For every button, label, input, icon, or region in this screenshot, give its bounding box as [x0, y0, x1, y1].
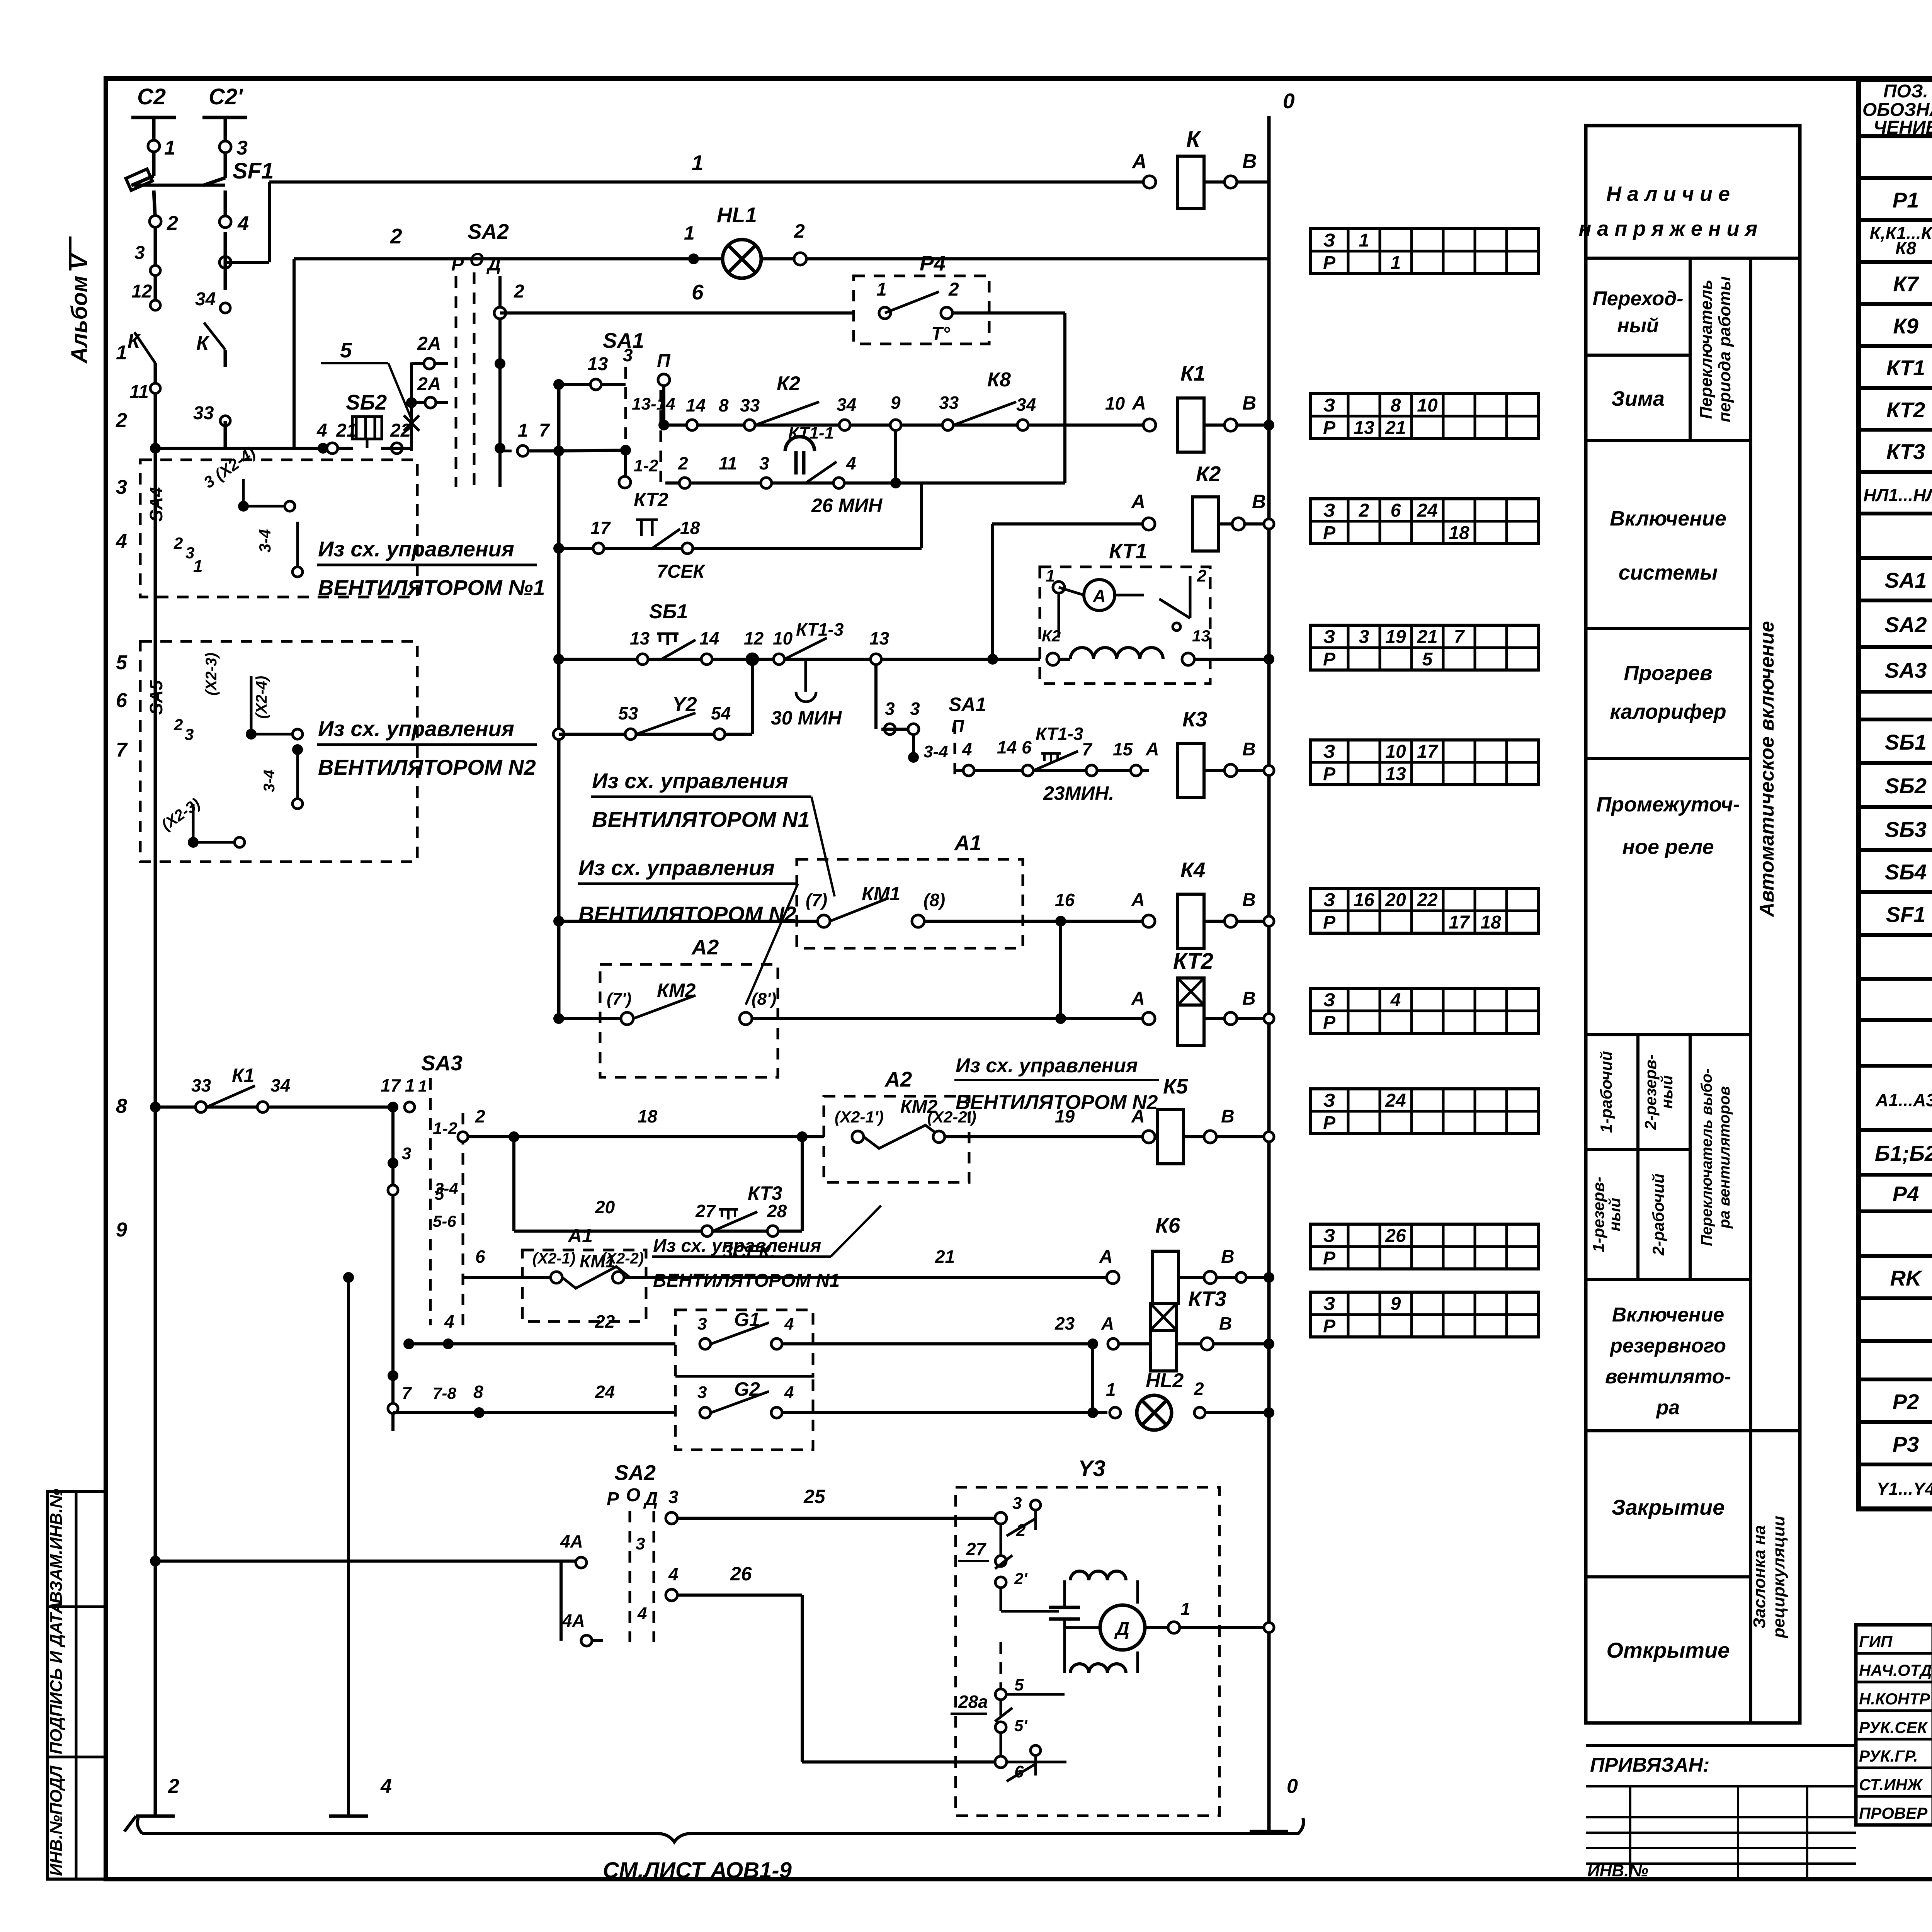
marker 3 3-4: [388, 1158, 398, 1168]
svg-text:30 МИН: 30 МИН: [771, 707, 842, 729]
svg-text:17: 17: [590, 518, 611, 538]
svg-text:КТ1: КТ1: [1109, 539, 1147, 563]
connection mini-table: [1310, 988, 1538, 1033]
svg-text:Р: Р: [1323, 418, 1336, 438]
svg-text:периода работы: периода работы: [1715, 276, 1734, 422]
svg-text:С2: С2: [137, 84, 166, 109]
svg-text:Б1;Б2: Б1;Б2: [1875, 1141, 1932, 1165]
svg-text:К: К: [128, 330, 141, 352]
svg-text:В: В: [1242, 392, 1256, 414]
svg-text:Т°: Т°: [931, 324, 950, 344]
svg-text:18: 18: [1449, 523, 1469, 543]
svg-text:13: 13: [1385, 764, 1406, 784]
KT3 contact row: [512, 1137, 515, 1231]
svg-text:Из сх. управления: Из сх. управления: [578, 855, 775, 880]
svg-text:33: 33: [939, 393, 959, 413]
svg-text:3: 3: [116, 476, 127, 498]
svg-text:10: 10: [1385, 742, 1406, 762]
svg-text:4А: 4А: [560, 1531, 583, 1551]
KT2 contact row: [553, 543, 564, 554]
lamp HL1: [723, 240, 761, 278]
svg-text:33: 33: [191, 1075, 211, 1095]
left stamp column: [48, 1492, 106, 1879]
svg-text:КТ2: КТ2: [634, 489, 668, 510]
svg-text:3: 3: [402, 1144, 411, 1163]
svg-text:4: 4: [784, 1383, 794, 1402]
svg-text:З: З: [1323, 1226, 1335, 1246]
svg-text:Р4: Р4: [1893, 1182, 1919, 1206]
left bus: [154, 227, 157, 309]
svg-text:10: 10: [1417, 395, 1438, 416]
sensor P4 box: [854, 276, 989, 344]
svg-text:8: 8: [473, 1382, 483, 1402]
svg-text:2: 2: [948, 279, 959, 300]
svg-text:7-8: 7-8: [433, 1384, 456, 1402]
svg-text:17: 17: [381, 1075, 401, 1095]
svg-text:4: 4: [668, 1564, 679, 1584]
svg-text:4: 4: [1390, 990, 1401, 1010]
svg-text:1: 1: [684, 222, 695, 244]
svg-text:5': 5': [1014, 1716, 1028, 1735]
svg-text:13-14: 13-14: [632, 395, 675, 413]
svg-text:0: 0: [1287, 1775, 1298, 1798]
svg-text:23МИН.: 23МИН.: [1043, 782, 1114, 804]
svg-text:(7'): (7'): [607, 990, 631, 1009]
row E wire: [155, 447, 353, 450]
signature table: [1856, 1625, 1932, 1825]
A1 box KM1 bottom: [522, 1250, 646, 1321]
svg-text:4: 4: [637, 1604, 647, 1623]
contact K1 row8: [150, 1102, 161, 1112]
svg-text:6: 6: [116, 689, 128, 712]
svg-text:Н.КОНТР: Н.КОНТР: [1859, 1690, 1930, 1708]
svg-text:З: З: [1323, 742, 1335, 762]
K2 relay coil row: [992, 522, 1149, 526]
svg-text:А: А: [1131, 491, 1145, 512]
svg-text:3: 3: [623, 345, 633, 365]
svg-text:34: 34: [1016, 395, 1036, 415]
Y3 capacitor: [1049, 1606, 1080, 1609]
svg-text:К6: К6: [1155, 1213, 1180, 1237]
svg-text:(8): (8): [923, 890, 945, 910]
svg-text:ВЕНТИЛЯТОРОМ N1: ВЕНТИЛЯТОРОМ N1: [592, 807, 810, 832]
svg-text:7: 7: [1082, 739, 1093, 759]
svg-text:КТ1-3: КТ1-3: [1036, 724, 1083, 744]
A2 box KM2: [600, 964, 778, 1077]
svg-text:(Х2-4): (Х2-4): [253, 676, 270, 719]
svg-text:HL1: HL1: [717, 203, 757, 227]
Y3 contact 3: [995, 1512, 1007, 1524]
svg-text:2: 2: [1359, 500, 1369, 521]
connection mini-table: [1310, 1089, 1538, 1134]
svg-text:5-6: 5-6: [433, 1212, 456, 1230]
svg-text:SF1: SF1: [233, 158, 274, 184]
svg-text:КТ2: КТ2: [1886, 398, 1925, 422]
contact K2: [755, 402, 819, 425]
connection mini-table: [1310, 499, 1538, 544]
svg-text:22: 22: [1417, 890, 1438, 910]
svg-text:23: 23: [1054, 1313, 1075, 1333]
svg-text:(8'): (8'): [752, 990, 776, 1009]
connection mini-table: [1310, 888, 1538, 933]
svg-text:21: 21: [1385, 418, 1406, 438]
svg-text:Открытие: Открытие: [1607, 1638, 1730, 1662]
svg-text:28а: 28а: [958, 1692, 988, 1712]
wire 26: [666, 1589, 677, 1601]
KT2 coil row: [559, 1017, 621, 1020]
svg-text:24: 24: [1385, 1090, 1406, 1111]
svg-text:3: 3: [1012, 1494, 1022, 1513]
svg-text:ВЕНТИЛЯТОРОМ N2: ВЕНТИЛЯТОРОМ N2: [956, 1091, 1158, 1114]
link 9 to row F: [894, 430, 897, 483]
svg-text:SA2: SA2: [1885, 612, 1927, 637]
svg-text:З: З: [1323, 500, 1335, 521]
svg-text:1: 1: [1180, 1599, 1190, 1619]
svg-text:2: 2: [475, 1106, 485, 1126]
svg-text:А1...А3: А1...А3: [1875, 1090, 1932, 1110]
svg-text:К2: К2: [1042, 627, 1061, 645]
svg-text:ЧЕНИЕ: ЧЕНИЕ: [1873, 117, 1932, 138]
svg-text:SБ3: SБ3: [1885, 817, 1927, 842]
svg-text:системы: системы: [1619, 561, 1718, 584]
svg-text:3: 3: [236, 137, 248, 159]
svg-text:3: 3: [697, 1315, 707, 1333]
contact K on C2prime bus: [224, 232, 227, 290]
svg-text:10: 10: [1105, 393, 1125, 413]
Y3 contact 6: [1000, 1733, 1002, 1762]
svg-text:3: 3: [185, 725, 194, 743]
svg-text:34: 34: [270, 1075, 290, 1095]
terminal 4 bottom: [347, 1277, 350, 1816]
svg-text:ра: ра: [1656, 1396, 1680, 1419]
KT1 inductor: [1070, 648, 1163, 659]
svg-text:Р: Р: [607, 1489, 619, 1509]
svg-text:рециркуляции: рециркуляции: [1769, 1516, 1788, 1638]
ammeter in KT1: [1084, 580, 1115, 611]
svg-text:17: 17: [1449, 912, 1470, 933]
svg-text:22: 22: [595, 1311, 615, 1332]
svg-text:2: 2: [168, 1775, 179, 1798]
svg-text:4: 4: [784, 1315, 794, 1333]
svg-text:33: 33: [740, 395, 760, 415]
svg-text:А: А: [1092, 586, 1105, 606]
svg-text:10: 10: [773, 628, 793, 648]
svg-text:2: 2: [173, 716, 183, 734]
svg-text:13: 13: [587, 354, 608, 374]
svg-text:2: 2: [678, 453, 688, 473]
svg-text:(7): (7): [806, 890, 827, 910]
svg-text:17: 17: [1417, 742, 1439, 762]
connection mini-table: [1310, 229, 1538, 274]
svg-text:2: 2: [173, 534, 183, 552]
node 2: [150, 216, 161, 227]
svg-text:1-2: 1-2: [634, 456, 658, 475]
svg-text:14: 14: [699, 628, 719, 648]
svg-text:0: 0: [1283, 89, 1295, 113]
svg-text:НАЧ.ОТД: НАЧ.ОТД: [1859, 1661, 1932, 1679]
svg-text:SA3: SA3: [1885, 658, 1927, 682]
svg-text:Закрытие: Закрытие: [1612, 1495, 1725, 1519]
svg-text:П: П: [951, 716, 964, 736]
svg-text:ГИП: ГИП: [1859, 1633, 1893, 1651]
contact K8: [954, 402, 1016, 425]
SA1 lower contact: [874, 665, 878, 729]
svg-text:Заслонка на: Заслонка на: [1750, 1525, 1769, 1629]
svg-text:А2: А2: [884, 1067, 912, 1091]
svg-text:К9: К9: [1893, 314, 1918, 338]
svg-text:3: 3: [759, 453, 769, 473]
svg-text:18: 18: [680, 518, 700, 538]
svg-text:25: 25: [803, 1486, 826, 1507]
svg-text:КТ1-3: КТ1-3: [796, 619, 844, 639]
circuit breaker SF1: [131, 176, 154, 185]
svg-text:2: 2: [116, 409, 127, 432]
svg-text:SБ4: SБ4: [1885, 860, 1927, 884]
svg-text:8: 8: [719, 395, 729, 415]
svg-text:А: А: [1099, 1247, 1113, 1267]
svg-text:СТ.ИНЖ: СТ.ИНЖ: [1859, 1776, 1923, 1794]
svg-text:А: А: [1145, 739, 1159, 760]
svg-text:В: В: [1242, 890, 1256, 910]
svg-text:Р3: Р3: [1893, 1432, 1919, 1456]
svg-text:8: 8: [116, 1095, 127, 1117]
svg-text:SБ2: SБ2: [1885, 774, 1927, 798]
svg-text:ный: ный: [1617, 315, 1659, 337]
svg-text:14 6: 14 6: [997, 737, 1032, 757]
svg-text:Р4: Р4: [920, 251, 946, 275]
svg-text:ПОЗ.: ПОЗ.: [1883, 81, 1928, 102]
node 4: [219, 216, 231, 228]
svg-text:СМ.ЛИСТ АОВ1-9: СМ.ЛИСТ АОВ1-9: [603, 1858, 792, 1883]
svg-text:2: 2: [794, 220, 805, 242]
privyazan area: [1586, 1744, 1856, 1747]
svg-text:14: 14: [686, 395, 706, 415]
svg-text:7: 7: [1454, 627, 1465, 647]
link K4 to KT2 row: [1059, 921, 1062, 1019]
svg-text:1: 1: [518, 420, 528, 441]
svg-text:13: 13: [1354, 418, 1374, 438]
svg-text:4: 4: [444, 1311, 454, 1332]
svg-text:3: 3: [134, 243, 145, 263]
KT3 coil row: [409, 1342, 675, 1345]
svg-text:ВЕНТИЛЯТОРОМ №1: ВЕНТИЛЯТОРОМ №1: [318, 575, 545, 600]
svg-text:Р: Р: [1323, 1012, 1336, 1033]
svg-text:РУК.СЕК: РУК.СЕК: [1859, 1718, 1929, 1736]
svg-text:К2: К2: [1196, 462, 1221, 486]
svg-text:1: 1: [164, 137, 175, 159]
svg-text:24: 24: [595, 1382, 615, 1402]
svg-text:С2': С2': [209, 84, 243, 109]
contact 2A lower: [412, 401, 448, 404]
svg-text:К8: К8: [987, 369, 1011, 391]
svg-text:З: З: [1323, 890, 1335, 910]
K1 relay row: [658, 420, 669, 430]
svg-text:6: 6: [692, 280, 704, 304]
svg-text:4: 4: [237, 213, 249, 235]
parts list table: [1859, 80, 1932, 1509]
junction dot wire2: [688, 253, 699, 264]
svg-text:З: З: [1323, 230, 1335, 251]
svg-text:А1: А1: [954, 831, 981, 855]
svg-text:4: 4: [380, 1775, 392, 1798]
K4 relay row: [559, 920, 818, 923]
time relay KT1 box: [1040, 567, 1210, 684]
A1 box KM1: [797, 859, 1023, 948]
svg-text:SБ1: SБ1: [649, 600, 688, 623]
svg-text:6: 6: [475, 1247, 485, 1267]
svg-text:ИНВ.№: ИНВ.№: [1587, 1861, 1648, 1880]
svg-text:Р: Р: [1323, 1248, 1336, 1269]
contact 2A upper: [412, 362, 448, 365]
row 1 junction: [559, 450, 626, 451]
svg-text:Р2: Р2: [1893, 1389, 1919, 1414]
feed 4A: [150, 1556, 161, 1566]
svg-text:HL2: HL2: [1146, 1369, 1184, 1392]
svg-text:9: 9: [891, 393, 901, 413]
svg-text:О: О: [469, 250, 484, 270]
svg-text:З: З: [1323, 627, 1335, 647]
svg-text:Переключатель выбо-: Переключатель выбо-: [1698, 1068, 1715, 1246]
svg-text:3: 3: [697, 1383, 707, 1402]
node 3: [219, 141, 231, 153]
svg-text:Р: Р: [451, 254, 464, 275]
svg-text:2: 2: [1197, 566, 1207, 585]
svg-text:18: 18: [638, 1106, 658, 1126]
svg-text:Р1: Р1: [1893, 188, 1919, 212]
svg-text:5: 5: [116, 651, 128, 674]
svg-text:А: А: [1131, 890, 1145, 910]
svg-text:Р: Р: [1323, 1113, 1336, 1133]
svg-text:н а п р я ж е н и я: н а п р я ж е н и я: [1579, 217, 1758, 240]
svg-text:3-4: 3-4: [923, 742, 948, 761]
Y2 contact row: [553, 729, 564, 740]
terminal C2: [131, 116, 176, 119]
connection mini-table: [1310, 1224, 1538, 1269]
svg-text:К: К: [1186, 127, 1201, 152]
branch 13: [559, 383, 626, 386]
svg-text:20: 20: [595, 1197, 615, 1217]
svg-text:ный: ный: [1658, 1075, 1676, 1109]
Y3 inductor bottom: [1070, 1664, 1126, 1673]
svg-text:2: 2: [1194, 1379, 1204, 1399]
K3 relay row: [955, 769, 1149, 772]
SA2 contact 1 to bus: [500, 450, 514, 452]
svg-text:2А: 2А: [417, 374, 441, 395]
svg-text:ный: ный: [1605, 1198, 1624, 1231]
svg-text:ПОДПИСЬ И ДАТА: ПОДПИСЬ И ДАТА: [47, 1602, 66, 1754]
svg-text:33: 33: [193, 403, 214, 423]
svg-text:Переключатель: Переключатель: [1697, 280, 1716, 419]
svg-text:2: 2: [167, 212, 178, 235]
terminal C2prime: [202, 116, 247, 119]
svg-text:А: А: [1101, 1313, 1114, 1333]
wire 25: [666, 1512, 677, 1524]
svg-text:7: 7: [402, 1384, 412, 1403]
svg-text:1': 1': [418, 1077, 432, 1095]
svg-text:9: 9: [116, 1219, 127, 1241]
svg-text:(Х2-1'): (Х2-1'): [835, 1108, 884, 1126]
svg-text:1: 1: [692, 151, 704, 175]
svg-text:К7: К7: [1893, 272, 1919, 296]
svg-text:РУК.ГР.: РУК.ГР.: [1859, 1747, 1918, 1765]
svg-text:24: 24: [1417, 500, 1437, 521]
function panel: [1586, 126, 1800, 1723]
svg-text:К: К: [196, 332, 210, 354]
svg-text:21: 21: [336, 420, 357, 441]
svg-text:К4: К4: [1180, 858, 1205, 882]
valve actuator Y3 box: [956, 1487, 1219, 1816]
A2 box X2 contacts: [824, 1096, 969, 1182]
svg-text:П: П: [657, 351, 671, 371]
connection mini-table: [1310, 394, 1538, 439]
svg-text:1: 1: [876, 279, 887, 300]
svg-text:11: 11: [719, 453, 737, 473]
svg-text:22: 22: [390, 420, 411, 441]
limit switch G2 box: [675, 1376, 813, 1450]
svg-text:З: З: [1323, 395, 1335, 416]
svg-text:7: 7: [539, 420, 550, 441]
svg-text:3: 3: [668, 1487, 679, 1507]
svg-text:4: 4: [962, 739, 972, 759]
contact K on left bus: [150, 265, 160, 276]
svg-text:54: 54: [711, 703, 731, 723]
svg-text:Из сх. управления: Из сх. управления: [956, 1054, 1138, 1077]
svg-text:В: В: [1242, 150, 1257, 173]
svg-text:13: 13: [1192, 627, 1210, 645]
svg-text:28: 28: [767, 1201, 787, 1221]
relay coil KT3: [1150, 1303, 1177, 1330]
svg-text:3-4: 3-4: [256, 529, 274, 553]
svg-text:Р: Р: [1323, 523, 1336, 543]
svg-text:1: 1: [1106, 1379, 1116, 1400]
svg-text:калорифер: калорифер: [1610, 700, 1726, 723]
svg-text:53: 53: [618, 703, 638, 723]
svg-text:Р: Р: [1323, 1316, 1336, 1337]
svg-text:SБ1: SБ1: [1885, 730, 1927, 754]
svg-text:6: 6: [1391, 500, 1401, 521]
svg-text:SF1: SF1: [1886, 902, 1926, 927]
svg-text:1: 1: [1359, 230, 1369, 251]
svg-text:ВЕНТИЛЯТОРОМ N1: ВЕНТИЛЯТОРОМ N1: [653, 1270, 840, 1291]
svg-text:Р: Р: [1323, 764, 1336, 784]
svg-text:RK: RK: [1890, 1266, 1923, 1290]
svg-text:15: 15: [1113, 739, 1133, 759]
relay coil K1: [1143, 419, 1156, 431]
svg-text:КТ1-1: КТ1-1: [788, 423, 834, 442]
svg-text:2-резерв-: 2-резерв-: [1641, 1054, 1660, 1130]
svg-text:Р: Р: [1323, 253, 1336, 273]
svg-text:SA1: SA1: [1885, 568, 1927, 592]
svg-text:К5: К5: [1163, 1074, 1189, 1098]
svg-text:Р: Р: [1323, 649, 1336, 670]
svg-text:резервного: резервного: [1609, 1335, 1726, 1357]
svg-text:З: З: [1323, 1090, 1335, 1111]
svg-text:20: 20: [1385, 890, 1406, 910]
svg-text:Д: Д: [486, 254, 501, 275]
svg-text:НЛ1...НЛ3: НЛ1...НЛ3: [1863, 485, 1932, 505]
svg-text:18: 18: [1480, 912, 1501, 933]
svg-text:КТ2: КТ2: [1173, 949, 1213, 974]
K6 relay row: [463, 1276, 551, 1279]
svg-text:9: 9: [1391, 1294, 1401, 1314]
svg-text:КТ3: КТ3: [1886, 439, 1925, 464]
svg-text:1: 1: [1391, 253, 1401, 273]
KT1 internal switch: [1159, 599, 1190, 618]
Y3 motor: [1100, 1605, 1145, 1650]
wire 1: [269, 180, 1150, 184]
svg-text:В: В: [1221, 1247, 1235, 1267]
svg-text:SA1: SA1: [949, 694, 986, 715]
